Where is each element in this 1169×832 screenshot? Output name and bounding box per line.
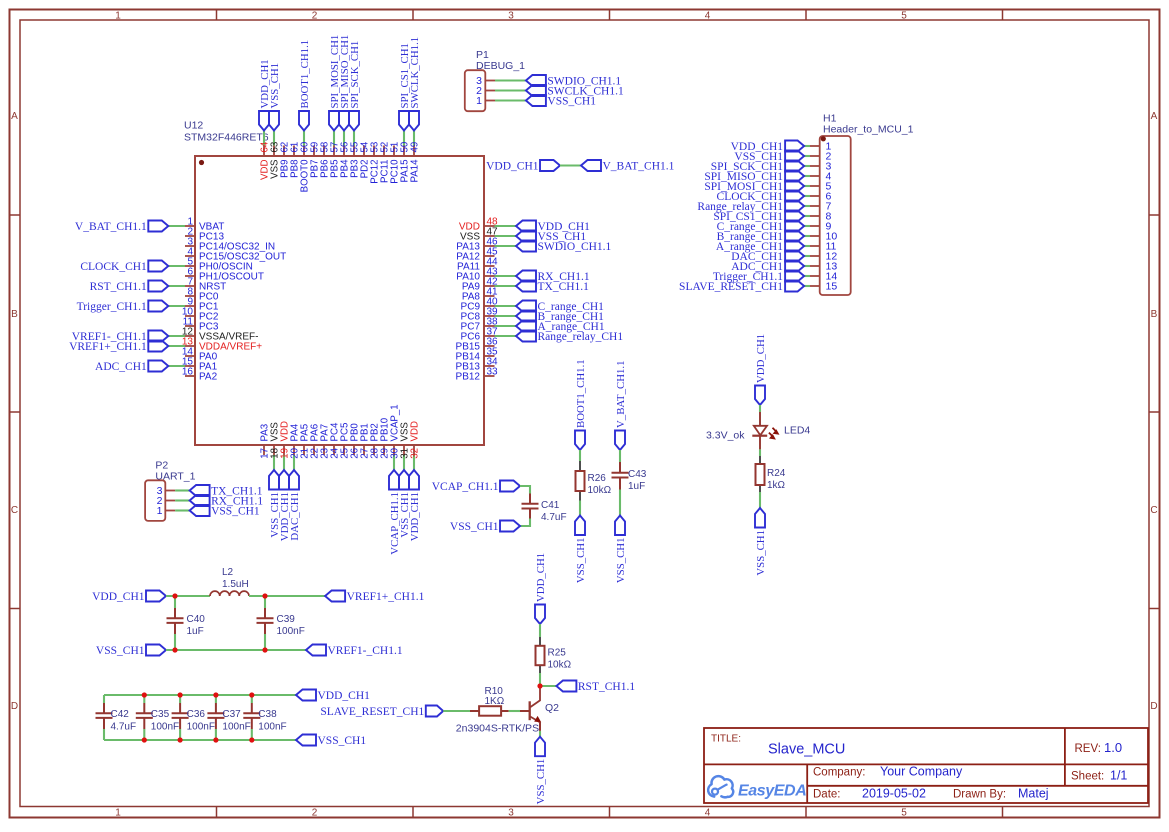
- U12 pin 56 PB4 (top): [343, 146, 345, 157]
- wire to U12 right pin at y=276: [495, 275, 517, 277]
- net flag Range_relay_CH1: [516, 331, 536, 342]
- svg-text:STM32F446RET6: STM32F446RET6: [184, 132, 269, 144]
- svg-text:Slave_MCU: Slave_MCU: [768, 742, 845, 758]
- capacitor C36 plates: [172, 712, 189, 714]
- resistor R25 body: [536, 646, 545, 665]
- wire VDD_CH1 to V_BAT_CH1.1: [560, 164, 581, 166]
- wire to U12 top pin at x=354: [353, 131, 355, 146]
- wire VDD rail (decoupling row): [104, 694, 296, 696]
- U12 pin 4 PC15/OSC32_OUT (left): [185, 255, 195, 257]
- capacitor C43 bottom lead: [619, 478, 621, 490]
- net flag SPI_MOSI_CH1: [329, 111, 339, 131]
- wire to U12 left pin at y=346: [168, 345, 185, 347]
- wire to U12 top pin at x=414: [413, 131, 415, 146]
- svg-text:D: D: [11, 701, 18, 712]
- net flag ADC_CH1: [785, 261, 804, 272]
- svg-text:PA14: PA14: [409, 159, 420, 183]
- capacitor C35 plates: [136, 712, 153, 714]
- svg-text:VSS_CH1: VSS_CH1: [269, 63, 281, 109]
- net flag VDD_CH1 (tie): [540, 160, 560, 171]
- wire VDD flag to R25: [539, 624, 541, 637]
- wire C43 to VSS flag: [619, 490, 621, 516]
- U12 pin 8 PC0 (left): [185, 295, 195, 297]
- net flag VSS_CH1: [399, 470, 409, 490]
- wire to U12 top pin at x=304: [303, 131, 305, 146]
- svg-text:TITLE:: TITLE:: [711, 734, 741, 745]
- wire H1 pin 15 to flag: [804, 285, 810, 287]
- svg-text:B: B: [11, 309, 18, 320]
- U12 pin 50 PA15 (top): [403, 146, 405, 157]
- svg-text:Header_to_MCU_1: Header_to_MCU_1: [823, 124, 914, 136]
- net flag Range_relay_CH1: [785, 201, 804, 212]
- U12 pin 25 PC5 (bottom): [343, 445, 345, 455]
- connector P1 DEBUG_1 body: [465, 70, 486, 111]
- net flag VDD_CH1: [259, 111, 269, 131]
- wire H1 pin 2 to flag: [804, 155, 810, 157]
- svg-text:1uF: 1uF: [628, 481, 645, 492]
- resistor R24 body: [756, 464, 765, 485]
- U12 pin 45 PA12 (right): [484, 255, 495, 257]
- net flag C_range_CH1: [516, 301, 536, 312]
- svg-text:3.3V_ok: 3.3V_ok: [706, 430, 745, 442]
- U12 pin 15 PA1 (left): [185, 365, 195, 367]
- U12 pin 17 PA3 (bottom): [263, 445, 265, 455]
- svg-text:1: 1: [115, 11, 121, 22]
- svg-text:C37: C37: [222, 709, 241, 720]
- connector P2 UART_1 body: [145, 480, 165, 521]
- svg-text:100nF: 100nF: [187, 722, 215, 733]
- U12 pin 49 PA14 (top): [413, 146, 415, 157]
- svg-text:ADC_CH1: ADC_CH1: [95, 361, 147, 373]
- svg-text:BOOT1_CH1.1: BOOT1_CH1.1: [575, 359, 587, 428]
- net flag RX_CH1.1: [516, 271, 536, 282]
- U12 pin-1 marker dot: [199, 160, 204, 165]
- U12 pin 40 PC9 (right): [484, 305, 495, 307]
- net flag VCAP_CH1.1: [389, 470, 399, 490]
- U12 pin 6 PH1/OSCOUT (left): [185, 275, 195, 277]
- svg-text:1.0: 1.0: [1104, 740, 1122, 755]
- net flag Trigger_CH1.1: [148, 301, 168, 312]
- transistor Q2 collector: [530, 686, 540, 707]
- net flag V_BAT_CH1.1 (tie): [581, 160, 601, 171]
- svg-text:Trigger_CH1.1: Trigger_CH1.1: [77, 301, 147, 313]
- net flag VCAP_CH1.1: [500, 481, 520, 492]
- net flag BOOT1_CH1.1: [299, 111, 309, 131]
- wire to U12 top pin at x=264: [263, 131, 265, 146]
- capacitor C39 leads: [264, 596, 266, 608]
- wire to U12 right pin at y=246: [495, 245, 517, 247]
- net flag CLOCK_CH1: [148, 261, 168, 272]
- svg-text:C39: C39: [277, 614, 296, 625]
- U12 pin 57 PB5 (top): [333, 146, 335, 157]
- net flag DAC_CH1: [289, 470, 299, 490]
- U12 pin 27 PB1 (bottom): [363, 445, 365, 455]
- wire to U12 bottom pin at x=394: [393, 455, 395, 470]
- net flag SWCLK_CH1.1: [409, 111, 419, 131]
- wire to U12 right pin at y=286: [495, 285, 517, 287]
- net flag VDD_CH1: [755, 386, 765, 406]
- net flag TX_CH1.1: [516, 281, 536, 292]
- connector H1 Header_to_MCU_1 body: [820, 136, 851, 295]
- wire H1 pin 4 to flag: [804, 175, 810, 177]
- U12 pin 37 PC6 (right): [484, 335, 495, 337]
- svg-text:1/1: 1/1: [1110, 769, 1127, 783]
- U12 pin 32 VDD (bottom): [413, 445, 415, 455]
- U12 pin 26 PB0 (bottom): [353, 445, 355, 455]
- wire to U12 right pin at y=226: [495, 225, 517, 227]
- wire V_BAT flag to C43: [619, 450, 621, 462]
- net flag SPI_CS1_CH1: [399, 111, 409, 131]
- svg-text:PA2: PA2: [199, 372, 218, 383]
- svg-text:100nF: 100nF: [277, 626, 305, 637]
- net flag VREF1+_CH1.1: [325, 591, 345, 602]
- border column ticks: [216, 10, 218, 21]
- wire SLAVE_RESET flag to R10: [443, 710, 470, 712]
- svg-text:Drawn By:: Drawn By:: [953, 789, 1006, 801]
- resistor R25 leads: [539, 637, 541, 646]
- capacitor C41 top lead: [529, 494, 531, 504]
- wire to U12 left pin at y=306: [168, 305, 185, 307]
- svg-text:1uF: 1uF: [187, 626, 204, 637]
- net flag CLOCK_CH1: [785, 191, 804, 202]
- net flag VSS_CH1: [500, 521, 520, 532]
- capacitor C41 plates: [522, 503, 539, 505]
- wire to U12 right pin at y=236: [495, 235, 517, 237]
- U12 pin 60 BOOT0 (top): [303, 146, 305, 157]
- transistor Q2 base bar: [529, 701, 531, 720]
- net flag SLAVE_RESET_CH1: [785, 281, 804, 292]
- svg-text:VSS_CH1: VSS_CH1: [535, 759, 547, 805]
- svg-text:C42: C42: [111, 709, 130, 720]
- wire H1 pin 12 to flag: [804, 255, 810, 257]
- capacitor C40 leads: [174, 596, 176, 608]
- svg-text:100nF: 100nF: [222, 722, 250, 733]
- capacitor C39 plates: [257, 617, 274, 619]
- wire P2 pin 3 to flag: [175, 489, 190, 491]
- wire to U12 top pin at x=274: [273, 131, 275, 146]
- net flag VREF1+_CH1.1: [148, 341, 168, 352]
- capacitor C42 plates: [96, 712, 113, 714]
- U12 pin 14 PA0 (left): [185, 355, 195, 357]
- transistor Q2 base lead: [520, 710, 529, 712]
- wire H1 pin 13 to flag: [804, 265, 810, 267]
- U12 pin 42 PA9 (right): [484, 285, 495, 287]
- U12 pin 21 PA5 (bottom): [303, 445, 305, 455]
- svg-text:C36: C36: [187, 709, 206, 720]
- net flag VSS_CH1: [785, 151, 804, 162]
- svg-text:VCAP_CH1.1: VCAP_CH1.1: [432, 481, 499, 493]
- U12 pin 22 PA6 (bottom): [313, 445, 315, 455]
- wire H1 pin 11 to flag: [804, 245, 810, 247]
- net flag SPI_MISO_CH1: [339, 111, 349, 131]
- wire to U12 bottom pin at x=404: [403, 455, 405, 470]
- net flag BOOT1_CH1.1: [575, 431, 585, 451]
- svg-text:16: 16: [182, 367, 194, 378]
- U12 pin 39 PC8 (right): [484, 315, 495, 317]
- U12 pin 46 PA13 (right): [484, 245, 495, 247]
- LED LED4 cathode bar: [752, 435, 767, 437]
- U12 pin 54 PD2 (top): [363, 146, 365, 157]
- U12 pin 41 PA8 (right): [484, 295, 495, 297]
- svg-text:C: C: [11, 505, 18, 516]
- capacitor C36 leads: [179, 695, 181, 703]
- wire P1 pin 1 to flag: [495, 99, 526, 101]
- net flag VSS_CH1: [269, 470, 279, 490]
- net flag ADC_CH1: [148, 361, 168, 372]
- EasyEDA logo cloud: [708, 776, 733, 797]
- U12 pin 20 PA4 (bottom): [293, 445, 295, 455]
- wire to U12 left pin at y=336: [168, 335, 185, 337]
- net flag VDD_CH1: [516, 221, 536, 232]
- wire H1 pin 7 to flag: [804, 205, 810, 207]
- U12 pin 38 PC7 (right): [484, 325, 495, 327]
- svg-text:Q2: Q2: [545, 702, 559, 714]
- inductor L2: [210, 591, 249, 596]
- svg-text:3: 3: [508, 11, 514, 22]
- resistor R24 leads: [759, 485, 761, 492]
- wire to U12 bottom pin at x=294: [293, 455, 295, 470]
- wire to U12 left pin at y=286: [168, 285, 185, 287]
- U12 pin 18 VSS (bottom): [273, 445, 275, 455]
- wire H1 pin 1 to flag: [804, 145, 810, 147]
- wire to U12 left pin at y=366: [168, 365, 185, 367]
- svg-text:TX_CH1.1: TX_CH1.1: [538, 281, 590, 293]
- U12 pin 10 PC2 (left): [185, 315, 195, 317]
- svg-text:REV:: REV:: [1075, 743, 1101, 755]
- H1 pin-1 marker dot: [821, 136, 826, 141]
- svg-text:R26: R26: [588, 473, 607, 484]
- svg-text:10kΩ: 10kΩ: [588, 485, 612, 496]
- svg-text:1KΩ: 1KΩ: [485, 696, 505, 707]
- svg-text:2: 2: [312, 808, 318, 819]
- wire L2 to VREF1+ flag: [249, 595, 325, 597]
- svg-text:1: 1: [476, 95, 482, 107]
- net flag VSS_CH1 (L2 bottom): [146, 645, 166, 656]
- svg-text:1: 1: [115, 808, 121, 819]
- wire P2 pin 1 to flag: [175, 509, 190, 511]
- U12 pin 30 VCAP_1 (bottom): [393, 445, 395, 455]
- net flag V_BAT_CH1.1: [148, 221, 168, 232]
- net flag SWDIO_CH1.1: [526, 75, 546, 86]
- net flag SPI_CS1_CH1: [785, 211, 804, 222]
- svg-text:VDD_CH1: VDD_CH1: [92, 591, 145, 603]
- wire H1 pin 9 to flag: [804, 225, 810, 227]
- wire to U12 top pin at x=404: [403, 131, 405, 146]
- svg-text:VREF1+_CH1.1: VREF1+_CH1.1: [347, 591, 425, 603]
- U12 pin 11 PC3 (left): [185, 325, 195, 327]
- net flag RST_CH1.1: [556, 681, 576, 692]
- resistor R26 leads: [579, 461, 581, 471]
- capacitor C37 plates: [207, 712, 224, 714]
- net flag VSS_CH1: [755, 508, 765, 528]
- U12 pin 7 NRST (left): [185, 285, 195, 287]
- svg-text:100nF: 100nF: [151, 722, 179, 733]
- U12 pin 16 PA2 (left): [185, 375, 195, 377]
- net flag DAC_CH1: [785, 251, 804, 262]
- net flag SLAVE_RESET_CH1: [426, 706, 443, 717]
- svg-text:VSS_CH1: VSS_CH1: [318, 735, 367, 747]
- U12 pin 19 VDD (bottom): [283, 445, 285, 455]
- net flag SWCLK_CH1.1: [526, 85, 546, 96]
- svg-text:Your Company: Your Company: [880, 765, 963, 779]
- wire P2 pin 2 to flag: [175, 499, 190, 501]
- wire to U12 right pin at y=336: [495, 335, 517, 337]
- svg-text:10kΩ: 10kΩ: [548, 660, 572, 671]
- U12 pin 63 VSS (top): [273, 146, 275, 157]
- wire LED4 cathode to R24: [759, 436, 761, 450]
- wire H1 pin 8 to flag: [804, 215, 810, 217]
- svg-text:5: 5: [901, 808, 907, 819]
- resistor R10 body: [479, 706, 501, 716]
- net flag VDD_CH1 (L2 input): [146, 591, 166, 602]
- svg-text:BOOT1_CH1.1: BOOT1_CH1.1: [299, 40, 311, 109]
- svg-text:Date:: Date:: [813, 789, 841, 801]
- wire R10 to Q2 base: [509, 710, 520, 712]
- svg-text:2019-05-02: 2019-05-02: [862, 787, 926, 801]
- svg-text:A: A: [1151, 111, 1158, 122]
- svg-text:VDD_CH1: VDD_CH1: [535, 553, 547, 602]
- net flag VSS_CH1: [516, 231, 536, 242]
- wire H1 pin 14 to flag: [804, 275, 810, 277]
- net flag TX_CH1.1: [190, 485, 210, 496]
- svg-text:VSS_CH1: VSS_CH1: [755, 530, 767, 576]
- net flag B_range_CH1: [785, 231, 804, 242]
- capacitor C38 leads: [251, 695, 253, 703]
- wire to U12 right pin at y=326: [495, 325, 517, 327]
- svg-text:100nF: 100nF: [258, 722, 286, 733]
- wire VSS flag to VREF1- flag: [166, 649, 306, 651]
- svg-text:RST_CH1.1: RST_CH1.1: [90, 281, 147, 293]
- svg-text:DEBUG_1: DEBUG_1: [476, 60, 525, 72]
- svg-text:V_BAT_CH1.1: V_BAT_CH1.1: [615, 361, 627, 429]
- net flag RST_CH1.1: [148, 281, 168, 292]
- svg-text:4: 4: [705, 808, 711, 819]
- resistor R26 body: [576, 471, 585, 491]
- net flag VDD_CH1: [535, 605, 545, 625]
- net flag B_range_CH1: [516, 311, 536, 322]
- svg-text:Matej: Matej: [1018, 787, 1049, 801]
- wire R26 to VSS flag: [579, 501, 581, 516]
- svg-text:B: B: [1151, 309, 1158, 320]
- net flag VDD_CH1: [409, 470, 419, 490]
- wire to U12 top pin at x=344: [343, 131, 345, 146]
- svg-text:D: D: [1150, 701, 1157, 712]
- net flag A_range_CH1: [785, 241, 804, 252]
- U12 pin 12 VSSA/VREF- (left): [185, 335, 195, 337]
- svg-text:VREF1-_CH1.1: VREF1-_CH1.1: [328, 645, 403, 657]
- svg-text:1kΩ: 1kΩ: [767, 480, 786, 491]
- capacitor C35 leads: [143, 695, 145, 703]
- svg-text:2: 2: [312, 11, 318, 22]
- svg-text:V_BAT_CH1.1: V_BAT_CH1.1: [75, 221, 147, 233]
- capacitor C43 top lead: [619, 462, 621, 472]
- svg-text:VSS_CH1: VSS_CH1: [211, 506, 260, 518]
- net flag VSS_CH1: [575, 516, 585, 536]
- capacitor C43 plates: [612, 472, 629, 474]
- wire H1 pin 5 to flag: [804, 185, 810, 187]
- capacitor C37 leads: [215, 695, 217, 703]
- wire to U12 top pin at x=334: [333, 131, 335, 146]
- wire VCAP flag to C41 top: [520, 486, 530, 494]
- svg-text:LED4: LED4: [784, 425, 810, 437]
- svg-text:VDD_CH1: VDD_CH1: [486, 161, 539, 173]
- svg-text:4.7uF: 4.7uF: [541, 512, 567, 523]
- U12 pin 48 VDD (right): [484, 225, 495, 227]
- svg-text:1.5uH: 1.5uH: [222, 579, 249, 590]
- svg-text:C35: C35: [151, 709, 170, 720]
- wire P1 pin 2 to flag: [495, 89, 526, 91]
- svg-text:Company:: Company:: [813, 767, 865, 779]
- U12 pin 44 PA11 (right): [484, 265, 495, 267]
- svg-text:4: 4: [705, 11, 711, 22]
- wire to U12 bottom pin at x=414: [413, 455, 415, 470]
- net flag VDD_CH1: [296, 690, 316, 701]
- svg-text:UART_1: UART_1: [155, 471, 195, 483]
- U12 pin 58 PB6 (top): [323, 146, 325, 157]
- svg-text:C40: C40: [187, 614, 206, 625]
- U12 pin 9 PC1 (left): [185, 305, 195, 307]
- svg-text:L2: L2: [222, 567, 234, 578]
- svg-text:CLOCK_CH1: CLOCK_CH1: [80, 261, 147, 273]
- U12 pin 62 PB9 (top): [283, 146, 285, 157]
- U12 pin 64 VDD (top): [263, 146, 265, 157]
- LED LED4 triangle: [754, 426, 767, 435]
- U12 pin 1 VBAT (left): [185, 225, 195, 227]
- net flag RX_CH1.1: [190, 495, 210, 506]
- capacitor C42 leads: [103, 695, 105, 703]
- U12 pin 28 PB2 (bottom): [373, 445, 375, 455]
- svg-text:VDD_CH1: VDD_CH1: [318, 690, 371, 702]
- svg-text:VDD_CH1: VDD_CH1: [755, 334, 767, 383]
- U12 pin 23 PA7 (bottom): [323, 445, 325, 455]
- net flag V_BAT_CH1.1: [615, 431, 625, 451]
- svg-text:1: 1: [157, 505, 163, 517]
- svg-text:VSS_CH1: VSS_CH1: [575, 538, 587, 584]
- net flag SPI_SCK_CH1: [349, 111, 359, 131]
- svg-text:SLAVE_RESET_CH1: SLAVE_RESET_CH1: [679, 281, 783, 293]
- capacitor C41 bottom lead: [529, 509, 531, 519]
- wire R24 to VSS flag: [759, 492, 761, 508]
- net flag VDD_CH1: [785, 141, 804, 152]
- svg-text:49: 49: [409, 142, 420, 153]
- net flag SPI_SCK_CH1: [785, 161, 804, 172]
- IC U12 STM32F446RET6 body: [195, 156, 484, 445]
- wire R25 to collector node: [539, 673, 541, 686]
- wire VSS rail (decoupling row): [104, 739, 296, 741]
- U12 pin 29 PB10 (bottom): [383, 445, 385, 455]
- svg-text:4.7uF: 4.7uF: [111, 722, 137, 733]
- U12 pin 36 PB15 (right): [484, 345, 495, 347]
- U12 pin 52 PC11 (top): [383, 146, 385, 157]
- svg-text:15: 15: [826, 281, 838, 293]
- U12 pin 59 PB7 (top): [313, 146, 315, 157]
- net flag VSS_CH1: [535, 737, 545, 757]
- svg-text:DAC_CH1: DAC_CH1: [289, 492, 301, 541]
- title block frame: [704, 728, 1148, 803]
- wire to U12 left pin at y=266: [168, 265, 185, 267]
- wire node to RST flag: [540, 685, 556, 687]
- U12 pin 47 VSS (right): [484, 235, 495, 237]
- junction dots: [172, 593, 177, 598]
- svg-text:VSS_CH1: VSS_CH1: [615, 538, 627, 584]
- svg-text:SPI_SCK_CH1: SPI_SCK_CH1: [349, 41, 361, 109]
- U12 pin 13 VDDA/VREF+ (left): [185, 345, 195, 347]
- transistor Q2 emitter with arrow: [530, 717, 540, 723]
- svg-text:C41: C41: [541, 500, 560, 511]
- U12 pin 51 PC10 (top): [393, 146, 395, 157]
- wire to U12 left pin at y=226: [168, 225, 185, 227]
- svg-text:VSS_CH1: VSS_CH1: [547, 96, 596, 108]
